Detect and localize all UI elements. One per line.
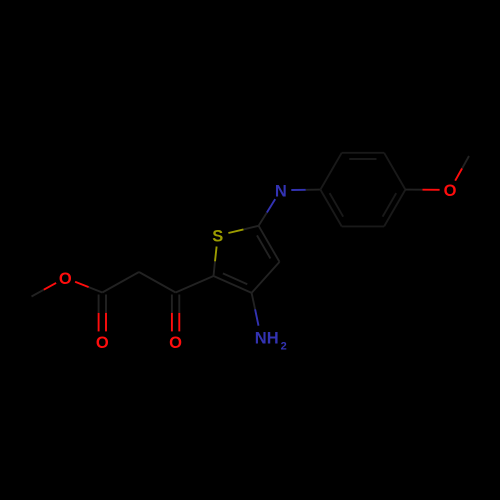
benzene bond C3-C4 <box>384 153 405 190</box>
double bond C2=O2 (ketone) <box>171 295 173 313</box>
bond CH3-O (ester methyl) <box>32 290 44 297</box>
bond C3-NH2 <box>252 293 256 309</box>
benzene bond C6-C1 <box>320 190 341 227</box>
benzene double bond C6=C1 inner line <box>330 193 344 217</box>
benzene double bond C2=C3 inner line <box>349 158 376 160</box>
bond C2-ring <box>176 276 214 293</box>
svg-text:S: S <box>212 228 223 246</box>
bond CH2-C2 (keto) <box>139 272 176 293</box>
svg-text:O: O <box>59 270 72 288</box>
benzene bond C5-C6 <box>342 225 384 227</box>
benzene double bond C4=C5 inner line <box>383 193 397 217</box>
benzene bond C4-C5 <box>384 190 405 227</box>
thiophene bond C5-C4 <box>259 226 280 262</box>
benzene bond C1-C2 <box>320 153 341 190</box>
svg-text:O: O <box>444 182 457 200</box>
benzene bond C2-C3 <box>342 152 384 154</box>
thiophene bond S-C5 <box>228 229 243 233</box>
bond O-CH3 (methoxy methyl) <box>455 168 462 180</box>
bond N-phenyl C1 <box>291 189 306 191</box>
thiophene bond C3-C2 <box>214 276 252 293</box>
thiophene double bond C3=C2 inner line <box>223 273 247 284</box>
svg-text:O: O <box>169 334 182 352</box>
thiophene double bond C5=C4 inner line <box>257 235 270 258</box>
thiophene bond C4-C3 <box>252 262 280 293</box>
thiophene bond C2-S <box>214 261 216 276</box>
bond C5-N (arylamine) <box>259 213 267 226</box>
bond C4-O (methoxy) <box>405 189 422 191</box>
svg-text:O: O <box>96 334 109 352</box>
svg-text:N: N <box>275 182 287 200</box>
bond C1-CH2 <box>102 272 139 293</box>
bond O-C1 (ester) <box>75 282 89 287</box>
double bond C1=O1 (ester carbonyl) <box>98 295 100 313</box>
